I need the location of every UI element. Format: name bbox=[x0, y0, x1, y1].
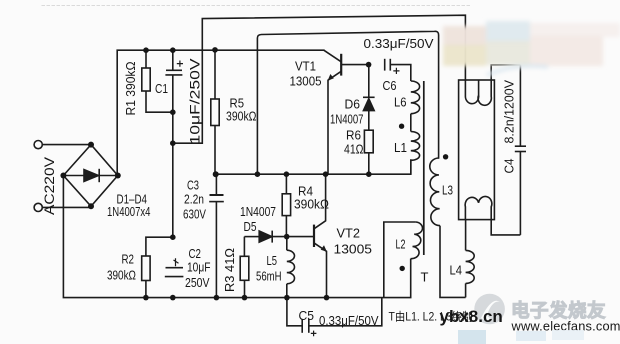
diode D5 bbox=[244, 236, 259, 238]
watermark top right blur patches bbox=[443, 21, 620, 75]
svg-text:390kΩ: 390kΩ bbox=[294, 197, 329, 212]
svg-text:D5: D5 bbox=[244, 219, 257, 234]
transistor VT1 bbox=[340, 54, 342, 76]
svg-text:2.2n: 2.2n bbox=[184, 192, 204, 207]
phase dot L6/L1 bbox=[399, 124, 404, 129]
svg-text:R2: R2 bbox=[122, 252, 135, 267]
wire bottom rail (-) bbox=[63, 176, 410, 298]
watermark elecfans logo bbox=[474, 294, 505, 325]
svg-text:1N4007: 1N4007 bbox=[240, 205, 276, 219]
svg-text:R3 41Ω: R3 41Ω bbox=[222, 248, 237, 292]
svg-text:10μF/250V: 10μF/250V bbox=[188, 59, 203, 145]
svg-text:56mH: 56mH bbox=[256, 269, 282, 284]
svg-text:L1: L1 bbox=[394, 140, 407, 155]
wire top rail (+) bbox=[117, 50, 324, 175]
svg-text:L2: L2 bbox=[396, 237, 406, 252]
lamp filament top bbox=[465, 65, 520, 105]
svg-text:C4: C4 bbox=[502, 159, 517, 174]
svg-text:8.2n/1200V: 8.2n/1200V bbox=[502, 80, 517, 144]
inductor L1 bbox=[411, 132, 420, 161]
svg-text:ybx8.cn: ybx8.cn bbox=[440, 307, 503, 326]
svg-text:13005: 13005 bbox=[290, 74, 322, 89]
lamp filament bottom bbox=[465, 197, 520, 235]
svg-text:C1: C1 bbox=[155, 81, 168, 96]
svg-text:C5: C5 bbox=[299, 308, 315, 323]
svg-text:C6: C6 bbox=[383, 78, 397, 93]
svg-text:L4: L4 bbox=[450, 263, 463, 278]
svg-text:390kΩ: 390kΩ bbox=[226, 109, 257, 124]
resistor R4 bbox=[285, 174, 287, 194]
watermark blue boxes bbox=[458, 330, 486, 344]
capacitor C4 bbox=[519, 65, 521, 146]
inductor L5 bbox=[286, 237, 288, 251]
svg-text:VT1: VT1 bbox=[295, 59, 316, 74]
resistor R3 bbox=[243, 237, 245, 257]
inductor L3 bbox=[430, 158, 440, 226]
phase dot L2 bbox=[400, 266, 405, 271]
svg-text:13005: 13005 bbox=[334, 242, 373, 257]
resistor R5 bbox=[214, 50, 216, 99]
wire AC top lead bbox=[43, 144, 91, 146]
svg-text:T: T bbox=[421, 270, 429, 285]
svg-text:R6: R6 bbox=[346, 128, 361, 143]
svg-text:L6: L6 bbox=[394, 95, 407, 110]
svg-text:L3: L3 bbox=[442, 183, 453, 198]
capacitor C1 bbox=[172, 50, 174, 70]
svg-text:1N4007: 1N4007 bbox=[330, 113, 364, 127]
terminal AC top bbox=[34, 141, 42, 149]
capacitor C6 bbox=[384, 59, 386, 71]
svg-text:10μF: 10μF bbox=[187, 260, 211, 275]
svg-text:C3: C3 bbox=[187, 178, 199, 193]
terminal AC bottom bbox=[34, 203, 42, 211]
phase dot L3 bbox=[443, 154, 448, 159]
resistor R2 bbox=[146, 237, 173, 256]
transistor VT2 bbox=[313, 225, 315, 247]
wire AC bottom lead bbox=[43, 206, 91, 208]
svg-text:0.33μF/50V: 0.33μF/50V bbox=[319, 313, 379, 328]
capacitor C5 bbox=[287, 298, 302, 326]
faint dotted border line top bbox=[42, 5, 470, 7]
diode D6 bbox=[368, 65, 370, 98]
inductor L4 bbox=[465, 220, 467, 251]
svg-text:VT2: VT2 bbox=[337, 226, 361, 241]
wire midpoint rail bbox=[216, 160, 411, 174]
svg-text:630V: 630V bbox=[183, 207, 206, 222]
lamp tube bbox=[459, 80, 495, 220]
svg-text:R1 390kΩ: R1 390kΩ bbox=[123, 61, 138, 115]
svg-text:41Ω: 41Ω bbox=[344, 142, 364, 157]
inductor L6 bbox=[411, 81, 420, 114]
svg-text:0.33μF/50V: 0.33μF/50V bbox=[364, 36, 434, 51]
svg-text:390kΩ: 390kΩ bbox=[107, 268, 136, 283]
svg-text:250V: 250V bbox=[185, 275, 210, 290]
resistor R1 bbox=[145, 50, 147, 68]
svg-text:D6: D6 bbox=[345, 97, 361, 112]
svg-text:1N4007x4: 1N4007x4 bbox=[107, 205, 151, 219]
wire lamp return A bbox=[173, 15, 466, 143]
transformer core T bbox=[423, 81, 425, 255]
svg-text:AC220V: AC220V bbox=[42, 157, 57, 215]
inductor L2 bbox=[384, 222, 416, 298]
capacitor C3 bbox=[215, 174, 217, 195]
capacitor C2 bbox=[166, 267, 184, 269]
resistor R6 bbox=[368, 111, 370, 131]
svg-text:L5: L5 bbox=[267, 253, 278, 268]
bridge rectifier D1-D4 bbox=[63, 145, 117, 207]
wire L6-L1 bbox=[410, 114, 412, 132]
wire midpoint-to-L3 B bbox=[257, 31, 438, 174]
